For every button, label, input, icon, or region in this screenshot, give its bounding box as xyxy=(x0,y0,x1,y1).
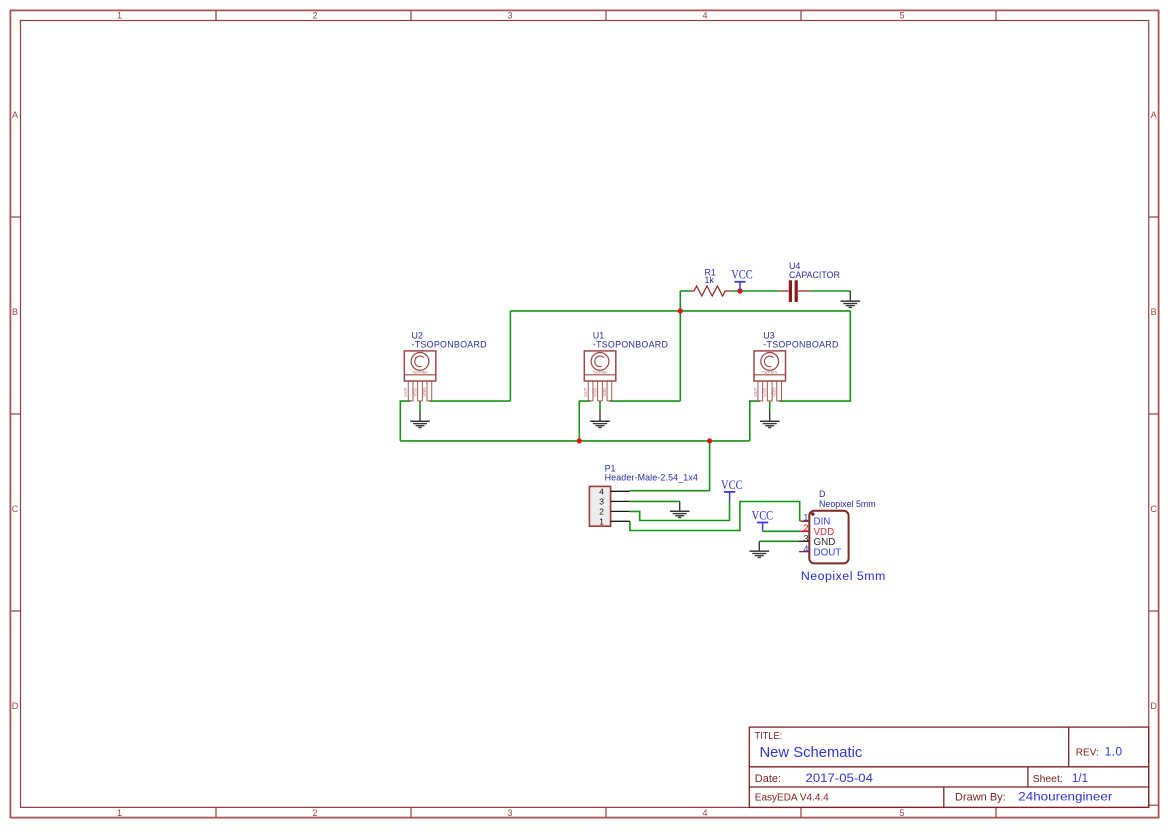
svg-text:3: 3 xyxy=(803,533,808,544)
svg-text:A: A xyxy=(12,110,18,120)
svg-text:4: 4 xyxy=(803,544,808,555)
svg-text:2: 2 xyxy=(312,11,317,21)
wire U2 VSS stem xyxy=(419,401,421,411)
svg-text:4: 4 xyxy=(702,808,707,818)
capacitor U4 xyxy=(780,280,810,302)
title block lines xyxy=(749,727,1148,807)
svg-text:VCC: VCC xyxy=(731,268,753,282)
svg-text:4: 4 xyxy=(702,11,707,21)
U2 pin names xyxy=(403,387,427,397)
wire P1 pin3 to ground xyxy=(630,500,680,502)
svg-text:OUT: OUT xyxy=(583,387,588,397)
svg-text:-TSOPONBOARD: -TSOPONBOARD xyxy=(412,340,487,350)
svg-text:Header-Male-2.54_1x4: Header-Male-2.54_1x4 xyxy=(605,473,698,483)
svg-text:VDD: VDD xyxy=(602,388,607,397)
U3 pin names xyxy=(753,387,777,397)
ground U3 xyxy=(760,412,780,428)
frame column numbers bottom xyxy=(117,808,905,818)
wire resistor left xyxy=(680,290,690,292)
svg-text:EasyEDA V4.4.4: EasyEDA V4.4.4 xyxy=(755,792,829,803)
frame row letters left xyxy=(12,110,19,711)
junction P1 pin4 node xyxy=(707,438,712,443)
wire mid rail xyxy=(510,310,850,312)
svg-text:Sheet:: Sheet: xyxy=(1033,774,1063,785)
svg-text:B: B xyxy=(12,307,18,317)
svg-text:3: 3 xyxy=(507,808,512,818)
svg-text:TSOP48xx: TSOP48xx xyxy=(592,371,608,375)
power flag VCC net neopixel VDD xyxy=(752,509,774,532)
svg-text:REV:: REV: xyxy=(1076,748,1099,759)
wire P1 pin4 riser xyxy=(630,441,710,491)
svg-text:1: 1 xyxy=(117,808,122,818)
ground capacitor xyxy=(841,291,861,307)
svg-text:D: D xyxy=(1150,701,1157,711)
ground P1 pin3 xyxy=(670,501,690,517)
junction VCC node xyxy=(737,288,742,293)
svg-text:VDD: VDD xyxy=(772,388,777,397)
svg-text:Neopixel 5mm: Neopixel 5mm xyxy=(801,569,886,583)
svg-text:New Schematic: New Schematic xyxy=(760,745,863,761)
frame column numbers top xyxy=(117,11,905,21)
wire U1 VSS stem xyxy=(599,401,601,411)
junction mid rail node xyxy=(678,308,683,313)
svg-text:1: 1 xyxy=(803,512,808,523)
IR receiver U3 xyxy=(754,351,786,401)
svg-text:Date:: Date: xyxy=(755,773,781,785)
power flag VCC net P1 pin2 xyxy=(721,478,743,502)
svg-text:4: 4 xyxy=(599,486,604,496)
frame row letters right xyxy=(1150,110,1157,711)
IR receiver U2 xyxy=(404,351,436,401)
svg-text:B: B xyxy=(1151,307,1157,317)
power flag VCC net R1 xyxy=(731,268,753,291)
svg-text:VSS: VSS xyxy=(593,388,598,397)
wire vertical resistor/U1-VDD riser xyxy=(679,291,681,401)
svg-text:VSS: VSS xyxy=(762,388,767,397)
svg-text:DIN: DIN xyxy=(814,517,831,528)
wire bottom rail xyxy=(400,440,750,442)
wire P1 pin2 to VCC xyxy=(630,502,730,521)
ground U2 xyxy=(410,412,430,428)
svg-text:A: A xyxy=(1151,110,1157,120)
wire ground to GND pin xyxy=(759,540,797,542)
wire U2 VDD xyxy=(429,400,510,402)
svg-text:2017-05-04: 2017-05-04 xyxy=(806,771,874,785)
ground U1 xyxy=(590,412,610,428)
svg-text:3: 3 xyxy=(599,496,604,506)
svg-text:-TSOPONBOARD: -TSOPONBOARD xyxy=(763,340,838,350)
svg-text:D: D xyxy=(12,701,19,711)
svg-text:VCC: VCC xyxy=(721,478,743,492)
U1 pin names xyxy=(583,387,607,397)
wire U1 OUT xyxy=(579,401,590,441)
svg-text:1: 1 xyxy=(599,516,604,526)
svg-text:Drawn By:: Drawn By: xyxy=(955,791,1006,803)
svg-text:5: 5 xyxy=(899,11,904,21)
svg-text:2: 2 xyxy=(803,523,808,534)
svg-text:D: D xyxy=(819,489,825,499)
wire U2 OUT xyxy=(400,401,410,441)
svg-text:VDD: VDD xyxy=(422,388,427,397)
svg-text:1/1: 1/1 xyxy=(1072,773,1088,785)
svg-text:1.0: 1.0 xyxy=(1105,745,1123,759)
LED D neopixel xyxy=(797,511,848,564)
svg-text:CAPACITOR: CAPACITOR xyxy=(789,270,840,280)
svg-text:OUT: OUT xyxy=(403,387,408,397)
svg-text:-TSOPONBOARD: -TSOPONBOARD xyxy=(593,340,668,350)
svg-text:VSS: VSS xyxy=(413,388,418,397)
svg-text:2: 2 xyxy=(312,808,317,818)
svg-text:TITLE:: TITLE: xyxy=(755,731,783,742)
svg-text:VCC: VCC xyxy=(752,509,774,523)
svg-text:DOUT: DOUT xyxy=(814,548,842,559)
svg-text:C: C xyxy=(1150,504,1157,514)
svg-text:1k: 1k xyxy=(705,275,715,285)
ground neopixel GND xyxy=(750,541,770,557)
svg-text:C: C xyxy=(12,504,19,514)
svg-text:OUT: OUT xyxy=(753,387,758,397)
wire U3 OUT xyxy=(750,401,761,441)
wire P1 pin1 to DIN xyxy=(630,502,800,531)
svg-text:5: 5 xyxy=(899,808,904,818)
header P1 xyxy=(589,486,629,526)
wire U1 VDD xyxy=(609,400,680,402)
wire VCC to VDD pin xyxy=(763,530,801,532)
junction U1 OUT node xyxy=(577,438,582,443)
svg-text:TSOP48xx: TSOP48xx xyxy=(762,371,778,375)
wire resistor right to capacitor xyxy=(731,290,780,292)
wire capacitor to ground corner xyxy=(810,290,850,292)
svg-text:2: 2 xyxy=(599,506,604,516)
svg-text:TSOP48xx: TSOP48xx xyxy=(412,371,428,375)
wire U3 VSS stem xyxy=(769,401,771,411)
IR receiver U1 xyxy=(584,351,616,401)
wire U2 VDD riser xyxy=(509,311,511,401)
svg-text:3: 3 xyxy=(507,11,512,21)
svg-text:Neopixel 5mm: Neopixel 5mm xyxy=(819,499,876,509)
resistor R1 xyxy=(691,286,731,296)
wire U3 VDD riser xyxy=(779,311,850,401)
title block text xyxy=(755,731,1123,803)
svg-text:24hourengineer: 24hourengineer xyxy=(1018,789,1112,803)
svg-text:1: 1 xyxy=(117,11,122,21)
